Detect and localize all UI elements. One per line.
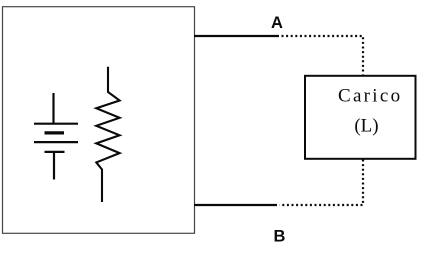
source box (generator enclosure) xyxy=(3,7,195,234)
svg-text:B: B xyxy=(274,228,286,246)
svg-text:Carico: Carico xyxy=(338,85,402,106)
node B label xyxy=(274,228,286,246)
wire: dotted segment from load to node B (bottom) xyxy=(280,160,364,206)
svg-text:A: A xyxy=(271,14,283,32)
resistor R1 (internal resistance) xyxy=(96,67,119,202)
node A label xyxy=(271,14,283,32)
wire: bottom solid segment from node B to source box xyxy=(194,204,277,206)
load label "(L)" xyxy=(354,116,378,137)
wire: top solid segment from source box to node A xyxy=(194,35,279,37)
wire: dotted segment from node A to load (top) xyxy=(282,36,364,75)
load box U1 xyxy=(305,76,416,159)
svg-text:(L): (L) xyxy=(354,116,378,137)
load label "Carico" xyxy=(338,85,402,106)
battery V1 xyxy=(34,93,78,180)
